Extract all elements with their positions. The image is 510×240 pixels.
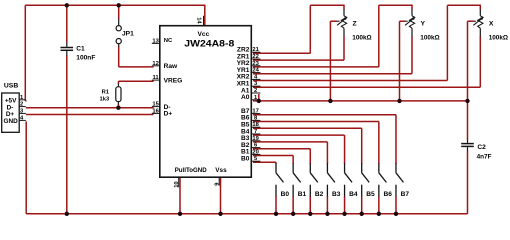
svg-text:C1: C1	[76, 45, 85, 52]
svg-text:14: 14	[196, 17, 202, 24]
svg-text:100nF: 100nF	[76, 54, 95, 61]
svg-text:2: 2	[20, 102, 23, 108]
svg-text:B0: B0	[241, 156, 250, 163]
svg-text:GND: GND	[3, 118, 18, 125]
svg-text:Raw: Raw	[164, 63, 178, 70]
svg-text:Z: Z	[353, 20, 357, 27]
svg-text:10: 10	[174, 181, 180, 187]
svg-text:C2: C2	[477, 144, 486, 151]
svg-text:X: X	[489, 20, 494, 27]
svg-text:Vcc: Vcc	[198, 31, 210, 38]
svg-text:B7: B7	[401, 191, 410, 198]
svg-text:PullToGND: PullToGND	[175, 167, 207, 174]
svg-text:VREG: VREG	[164, 77, 183, 84]
svg-text:JW24A8-8: JW24A8-8	[184, 38, 235, 49]
svg-text:B0: B0	[281, 191, 290, 198]
svg-text:Y: Y	[421, 20, 426, 27]
svg-text:24: 24	[252, 68, 259, 74]
svg-text:4n7F: 4n7F	[477, 153, 492, 160]
svg-text:7: 7	[254, 129, 257, 135]
svg-text:D+: D+	[164, 111, 173, 118]
svg-text:R1: R1	[102, 90, 110, 96]
svg-text:100kΩ: 100kΩ	[489, 35, 508, 42]
svg-text:12: 12	[152, 61, 158, 67]
svg-text:11: 11	[153, 75, 160, 81]
svg-text:13: 13	[152, 38, 159, 44]
svg-text:15: 15	[152, 102, 159, 108]
svg-text:1k3: 1k3	[100, 96, 110, 102]
svg-text:16: 16	[152, 108, 159, 114]
svg-text:100kΩ: 100kΩ	[352, 35, 371, 42]
svg-text:2: 2	[254, 88, 257, 94]
svg-text:JP1: JP1	[122, 31, 134, 38]
svg-text:B2: B2	[315, 191, 324, 198]
svg-text:22: 22	[252, 54, 258, 60]
svg-text:B3: B3	[332, 191, 341, 198]
svg-text:9: 9	[215, 182, 221, 186]
svg-text:B6: B6	[383, 191, 392, 198]
svg-text:Vss: Vss	[215, 167, 227, 174]
svg-text:USB: USB	[4, 83, 18, 90]
svg-text:21: 21	[252, 47, 259, 53]
svg-text:17: 17	[252, 109, 258, 115]
svg-text:23: 23	[252, 61, 259, 67]
svg-text:20: 20	[252, 149, 258, 155]
svg-text:A0: A0	[241, 94, 250, 101]
svg-text:B5: B5	[366, 191, 375, 198]
svg-text:B4: B4	[349, 191, 358, 198]
svg-text:19: 19	[252, 136, 259, 142]
svg-text:100kΩ: 100kΩ	[420, 35, 439, 42]
svg-text:18: 18	[252, 122, 259, 128]
svg-text:NC: NC	[164, 38, 173, 44]
svg-text:B1: B1	[298, 191, 307, 198]
